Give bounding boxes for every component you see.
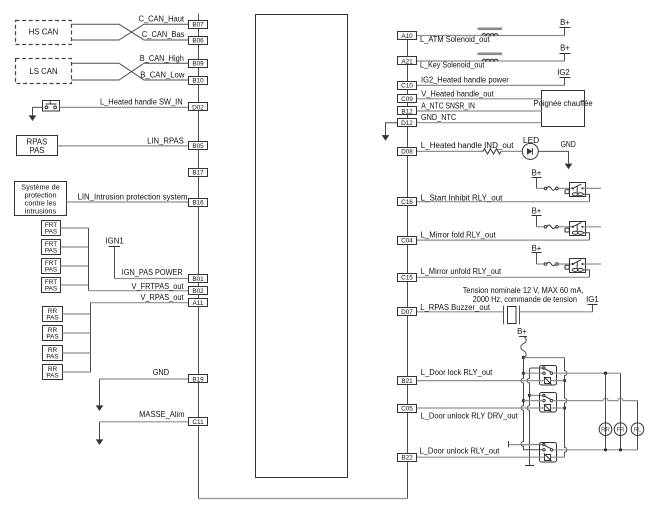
svg-text:PAS: PAS [45, 248, 57, 255]
junction dot (lock wire / RR motor) [604, 372, 607, 375]
svg-text:LIN_Intrusion protection syste: LIN_Intrusion protection system [78, 193, 188, 202]
wire B_CAN_Low (twisted pair lower) [72, 63, 189, 80]
wire LIN_Intrusion protection system [67, 201, 189, 203]
svg-text:B05: B05 [192, 143, 204, 150]
RR PAS sensor box 4 [43, 365, 63, 380]
wire fuse to relay (relay K1 start inhibit) [559, 187, 572, 189]
wire L_ATM Solenoid_out (A10) [417, 35, 565, 37]
ground arrow (LED GND) [565, 164, 573, 170]
wire fuse to relay (relay K2 mirror fold) [559, 226, 572, 228]
svg-text:HS CAN: HS CAN [29, 28, 58, 37]
wire C_CAN_Haut (twisted pair upper) [72, 24, 189, 40]
wire relay coil return (relay K1 start inhibit) [583, 194, 589, 201]
left supply rail [521, 358, 543, 450]
svg-text:A_NTC SNSR_IN: A_NTC SNSR_IN [421, 101, 475, 110]
ground arrow (switch) [29, 115, 37, 121]
svg-text:MASSE_Alim: MASSE_Alim [139, 410, 184, 419]
fuse F (relay K2 mirror fold) [544, 225, 558, 229]
wire GND_NTC to ground [386, 123, 398, 136]
svg-text:Tension nominale 12 V, MAX 60: Tension nominale 12 V, MAX 60 mA, [463, 286, 584, 295]
wire relay A common feed [524, 372, 543, 374]
svg-text:A21: A21 [401, 58, 413, 65]
motor RR [599, 423, 612, 436]
wire coil A to right rail [551, 380, 565, 382]
connector pin B19 [189, 375, 208, 384]
wire buzzer to IG1 [520, 311, 593, 313]
wire A_NTC SNSR_IN [417, 110, 542, 112]
relay K4 door lock [540, 366, 557, 386]
wire LIN_RPAS [58, 145, 189, 147]
relay B top contact wire [530, 394, 544, 396]
svg-text:B+: B+ [517, 327, 527, 336]
svg-text:B+: B+ [532, 207, 542, 216]
wire B+ to fuse (relay K2 mirror fold) [537, 226, 545, 228]
svg-text:IGN1: IGN1 [106, 236, 124, 245]
junction dot (unlock wire / FR motor) [619, 448, 622, 451]
wire L_Start Inhibit RLY_out [417, 201, 590, 203]
svg-text:C_CAN_Haut: C_CAN_Haut [139, 15, 185, 24]
svg-text:GND_NTC: GND_NTC [421, 113, 457, 122]
svg-text:LIN_RPAS: LIN_RPAS [147, 136, 184, 145]
ECU right pin bus line [407, 31, 409, 499]
connector pin B09 [189, 60, 208, 68]
wire B+ node to right rail [524, 357, 565, 359]
svg-text:B17: B17 [192, 169, 204, 176]
svg-text:C05: C05 [401, 405, 413, 412]
wire FRT PAS 4 to bus [61, 284, 89, 286]
wire L_Heated handle SW_IN [60, 106, 189, 108]
junction node (B+ feed) [522, 356, 525, 359]
connector pin C05 [398, 405, 417, 413]
connector pin B01 [189, 275, 208, 283]
wire RR motor vertical [605, 373, 607, 450]
svg-text:B+: B+ [532, 244, 542, 253]
solenoid coil (L_ATM Solenoid_out (A10)) [478, 28, 503, 36]
svg-text:C09: C09 [401, 96, 413, 103]
svg-text:GND: GND [153, 368, 170, 377]
HS CAN module box [16, 21, 72, 45]
resistor R1 (LED series) [483, 149, 501, 154]
B+ terminal (L_Key Solenoid_out (A21)) [560, 43, 571, 61]
wire RR PAS 3 to bus [63, 352, 91, 354]
svg-text:B+: B+ [560, 18, 570, 27]
svg-text:L_Key Solenoid_out: L_Key Solenoid_out [420, 61, 485, 70]
svg-text:C11: C11 [192, 419, 204, 426]
door lock supply squiggle wire [521, 337, 526, 358]
heated grip module box (Poignée chauffée) [542, 91, 585, 127]
relay A top contact wire to ground rail [527, 368, 544, 466]
svg-text:C16: C16 [401, 199, 413, 206]
connector pin A21 [398, 57, 417, 66]
svg-text:B21: B21 [401, 378, 413, 385]
wire fuse to relay (relay K3 mirror unfold) [559, 263, 572, 265]
wire relay C output to motors [553, 449, 638, 451]
wire relay output (relay K1 start inhibit) [583, 187, 602, 189]
relay K6 door unlock [540, 443, 557, 463]
RR PAS sensor box 1 [43, 307, 63, 322]
relay relay K3 mirror unfold [565, 259, 586, 273]
fuse F (relay K3 mirror unfold) [544, 262, 558, 266]
RR PAS bus vertical wire [90, 303, 92, 373]
connector pin B05 [189, 142, 208, 151]
svg-text:C15: C15 [401, 275, 413, 282]
svg-text:IG2: IG2 [557, 68, 570, 77]
wire FRT PAS 1 to bus [61, 227, 89, 229]
connector pin C15 [398, 274, 417, 282]
svg-text:PAS: PAS [46, 354, 58, 361]
svg-text:PAS: PAS [45, 286, 57, 293]
svg-text:IGN_PAS POWER: IGN_PAS POWER [122, 268, 183, 277]
relay relay K1 start inhibit [565, 183, 586, 197]
B+ terminal (relay K1 start inhibit) [532, 168, 542, 188]
connector pin B22 [398, 454, 417, 462]
connector pin D12 [398, 119, 417, 128]
FRT PAS bus vertical wire [88, 228, 90, 291]
junction dot (rail to relay B common) [522, 399, 525, 402]
connector pin B12 [398, 107, 417, 116]
connector pin D07 [398, 308, 417, 317]
wire relay output (relay K3 mirror unfold) [583, 263, 602, 265]
svg-text:B02: B02 [192, 288, 204, 295]
connector pin A11 [189, 299, 208, 308]
connector pin C11 [189, 418, 208, 427]
svg-text:RL: RL [634, 427, 642, 434]
wire L_Key Solenoid_out (A21) [417, 60, 565, 62]
svg-text:L_Door unlock RLY DRV_out: L_Door unlock RLY DRV_out [421, 411, 519, 420]
svg-text:GND: GND [561, 140, 577, 149]
svg-text:PAS: PAS [45, 267, 57, 274]
wire L_Door lock RLY_out [417, 380, 545, 382]
wire V_Heated handle_out [417, 98, 542, 100]
svg-text:D12: D12 [401, 120, 413, 127]
motor RL [631, 423, 644, 436]
wire C_CAN_Bas (twisted pair lower) [72, 24, 189, 40]
connector pin B16 [189, 199, 208, 207]
svg-text:A11: A11 [193, 300, 204, 307]
svg-text:D08: D08 [401, 149, 413, 156]
wire B+ to fuse (relay K1 start inhibit) [537, 187, 545, 189]
RR PAS sensor box 3 [43, 346, 63, 361]
svg-text:B09: B09 [192, 61, 204, 68]
wire relay coil return (relay K2 mirror fold) [583, 233, 589, 240]
svg-text:IG1: IG1 [586, 295, 599, 304]
FRT PAS sensor box 1 [42, 221, 61, 236]
B+ terminal (relay K2 mirror fold) [532, 207, 542, 227]
wire relay A output to motors [553, 372, 621, 374]
wire relay output (relay K2 mirror fold) [583, 226, 602, 228]
svg-text:C_CAN_Bas: C_CAN_Bas [142, 30, 185, 39]
relay relay K2 mirror fold [565, 222, 586, 236]
svg-text:LS CAN: LS CAN [29, 67, 57, 76]
wire GND drop [99, 379, 101, 406]
wire L_Mirror unfold RLY_out [417, 276, 590, 278]
connector pin C04 [398, 237, 417, 245]
svg-text:L_Start Inhibit RLY_out: L_Start Inhibit RLY_out [421, 194, 504, 203]
wire RL motor vertical [637, 401, 639, 450]
relay K5 door unlock driver [540, 393, 557, 413]
FRT PAS sensor box 2 [42, 240, 61, 255]
wire L_Door unlock RLY_out [417, 456, 545, 458]
right supply rail [565, 358, 567, 458]
svg-text:PAS: PAS [46, 315, 58, 322]
junction dot (rail to relay A common) [522, 372, 525, 375]
wire stub to relay C top contact [509, 444, 544, 446]
connector pin C09 [398, 95, 417, 104]
wire FR motor vertical [620, 373, 622, 450]
junction dot (unlock wire / RR motor) [604, 448, 607, 451]
terminal stub (unlock relay contact) [508, 441, 510, 447]
svg-text:RR: RR [601, 427, 610, 434]
svg-text:L_Door lock RLY_out: L_Door lock RLY_out [421, 368, 493, 377]
wire L_Door unlock RLY DRV_out [417, 407, 545, 409]
ground arrow (GND_NTC) [382, 135, 390, 141]
solenoid coil (L_Key Solenoid_out (A21)) [478, 53, 503, 62]
svg-text:PAS: PAS [29, 146, 44, 155]
svg-text:intrusions: intrusions [25, 206, 57, 215]
B+ terminal (relay K3 mirror unfold) [532, 244, 542, 264]
svg-text:LED: LED [523, 136, 540, 145]
connector pin C16 [398, 198, 417, 207]
wire coil C to right rail [551, 456, 565, 458]
wire V_FRTPAS_out [89, 290, 189, 292]
wire L_Mirror fold RLY_out [417, 239, 590, 241]
RR PAS sensor box 2 [43, 326, 63, 341]
IG2 terminal [557, 68, 570, 86]
svg-text:B10: B10 [192, 77, 204, 84]
wire GND [100, 378, 189, 380]
connector pin C10 [398, 82, 417, 90]
junction dot (coil A to rail) [563, 379, 566, 382]
connector pin D02 [189, 103, 208, 112]
wire L_Heated handle IND_out [417, 150, 484, 152]
svg-text:L_RPAS Buzzer_out: L_RPAS Buzzer_out [420, 303, 491, 312]
connector pin D08 [398, 148, 417, 156]
wire LED to ground [538, 151, 568, 163]
svg-text:2000 Hz, commande de tension: 2000 Hz, commande de tension [473, 295, 577, 304]
ECU body rectangle [256, 15, 348, 478]
svg-text:L_Mirror unfold RLY_out: L_Mirror unfold RLY_out [421, 267, 502, 276]
fuse F (relay K1 start inhibit) [544, 187, 558, 191]
svg-text:B16: B16 [192, 199, 204, 206]
wire FRT PAS 2 to bus [61, 246, 89, 248]
wire V_RPAS_out [91, 302, 189, 304]
svg-text:B+: B+ [532, 168, 542, 177]
svg-text:C10: C10 [401, 83, 413, 90]
B+ terminal (L_ATM Solenoid_out (A10)) [560, 18, 571, 36]
wire relay B common feed [524, 400, 543, 402]
buzzer BZ1 (piezo) [504, 306, 520, 325]
svg-text:FR: FR [616, 427, 625, 434]
wire IGN_PAS POWER [115, 278, 189, 280]
intrusion protection system module box [15, 182, 67, 216]
LED D1 [522, 143, 538, 159]
svg-text:A10: A10 [401, 33, 413, 40]
svg-text:L_Heated handle IND_out: L_Heated handle IND_out [421, 141, 515, 150]
svg-text:D02: D02 [192, 104, 204, 111]
connector pin B06 [189, 37, 208, 45]
svg-text:B_CAN_High: B_CAN_High [140, 54, 184, 63]
wire switch to ground [33, 107, 43, 116]
LS CAN module box [16, 59, 72, 84]
svg-text:L_Door unlock RLY_out: L_Door unlock RLY_out [420, 446, 501, 455]
svg-text:IG2_Heated handle power: IG2_Heated handle power [421, 75, 509, 84]
wire FRT PAS 3 to bus [61, 265, 89, 267]
svg-text:Poignée chauffée: Poignée chauffée [534, 99, 593, 108]
ground arrow (GND) [96, 405, 104, 411]
buzzer spec text [463, 286, 584, 304]
junction dot (relay B top contact) [528, 394, 531, 397]
svg-text:L_Mirror fold RLY_out: L_Mirror fold RLY_out [421, 231, 497, 240]
wire GND_NTC [417, 122, 542, 124]
ECU bottom outline wire [199, 498, 408, 500]
svg-text:B06: B06 [192, 37, 204, 44]
IG1 terminal [586, 295, 599, 312]
wire MASSE_Alim drop [99, 422, 101, 440]
connector pin A10 [398, 32, 417, 40]
svg-text:B12: B12 [401, 108, 413, 115]
wire relay coil return (relay K3 mirror unfold) [583, 270, 589, 277]
svg-text:B_CAN_Low: B_CAN_Low [140, 71, 184, 80]
wire L_RPAS Buzzer_out [417, 311, 504, 313]
ECU left pin bus line [198, 14, 200, 499]
svg-text:B19: B19 [192, 376, 204, 383]
B+ terminal (door lock supply) [517, 327, 527, 336]
heated handle switch SW1 [43, 101, 60, 112]
wire RR PAS 4 to bus [63, 371, 91, 373]
connector pin B02 [189, 287, 208, 296]
svg-text:V_Heated handle_out: V_Heated handle_out [421, 89, 494, 98]
connector pin B07 [189, 21, 208, 29]
svg-text:B+: B+ [560, 43, 570, 52]
junction dot (coil B to rail) [563, 406, 566, 409]
svg-text:V_FRTPAS_out: V_FRTPAS_out [132, 282, 185, 291]
svg-text:B01: B01 [192, 276, 204, 283]
RPAS PAS module box [17, 136, 58, 156]
svg-text:D07: D07 [401, 309, 413, 316]
wire IGN_PAS POWER vertical [114, 247, 116, 279]
connector pin B17 [189, 169, 208, 177]
wire B+ to fuse (relay K3 mirror unfold) [537, 263, 545, 265]
svg-text:B22: B22 [401, 455, 413, 462]
svg-text:C04: C04 [401, 237, 413, 244]
wire coil B to right rail [551, 407, 565, 409]
svg-text:L_ATM Solenoid_out: L_ATM Solenoid_out [420, 35, 490, 44]
svg-text:PAS: PAS [45, 229, 57, 236]
svg-text:PAS: PAS [46, 373, 58, 380]
wire relay B output to RL motor [553, 398, 638, 400]
wire resistor to LED [501, 150, 522, 152]
wire IG2_Heated handle power [417, 84, 565, 86]
svg-text:PAS: PAS [46, 334, 58, 341]
wire RR PAS 1 to bus [63, 313, 91, 315]
ground arrow (MASSE_Alim) [96, 439, 104, 445]
connector pin B10 [189, 77, 208, 85]
svg-text:L_Heated handle SW_IN: L_Heated handle SW_IN [100, 97, 183, 106]
wire B_CAN_High (twisted pair upper) [72, 63, 189, 80]
IGN1 terminal bar [109, 246, 121, 248]
FRT PAS sensor box 4 [42, 278, 61, 293]
svg-text:V_RPAS_out: V_RPAS_out [141, 293, 185, 302]
connector pin B21 [398, 377, 417, 385]
motor FR [614, 423, 627, 436]
FRT PAS sensor box 3 [42, 259, 61, 274]
wire MASSE_Alim [100, 421, 189, 423]
wire RR PAS 2 to bus [63, 332, 91, 334]
svg-text:B07: B07 [192, 22, 204, 29]
ground bar (door lock) [525, 465, 534, 467]
